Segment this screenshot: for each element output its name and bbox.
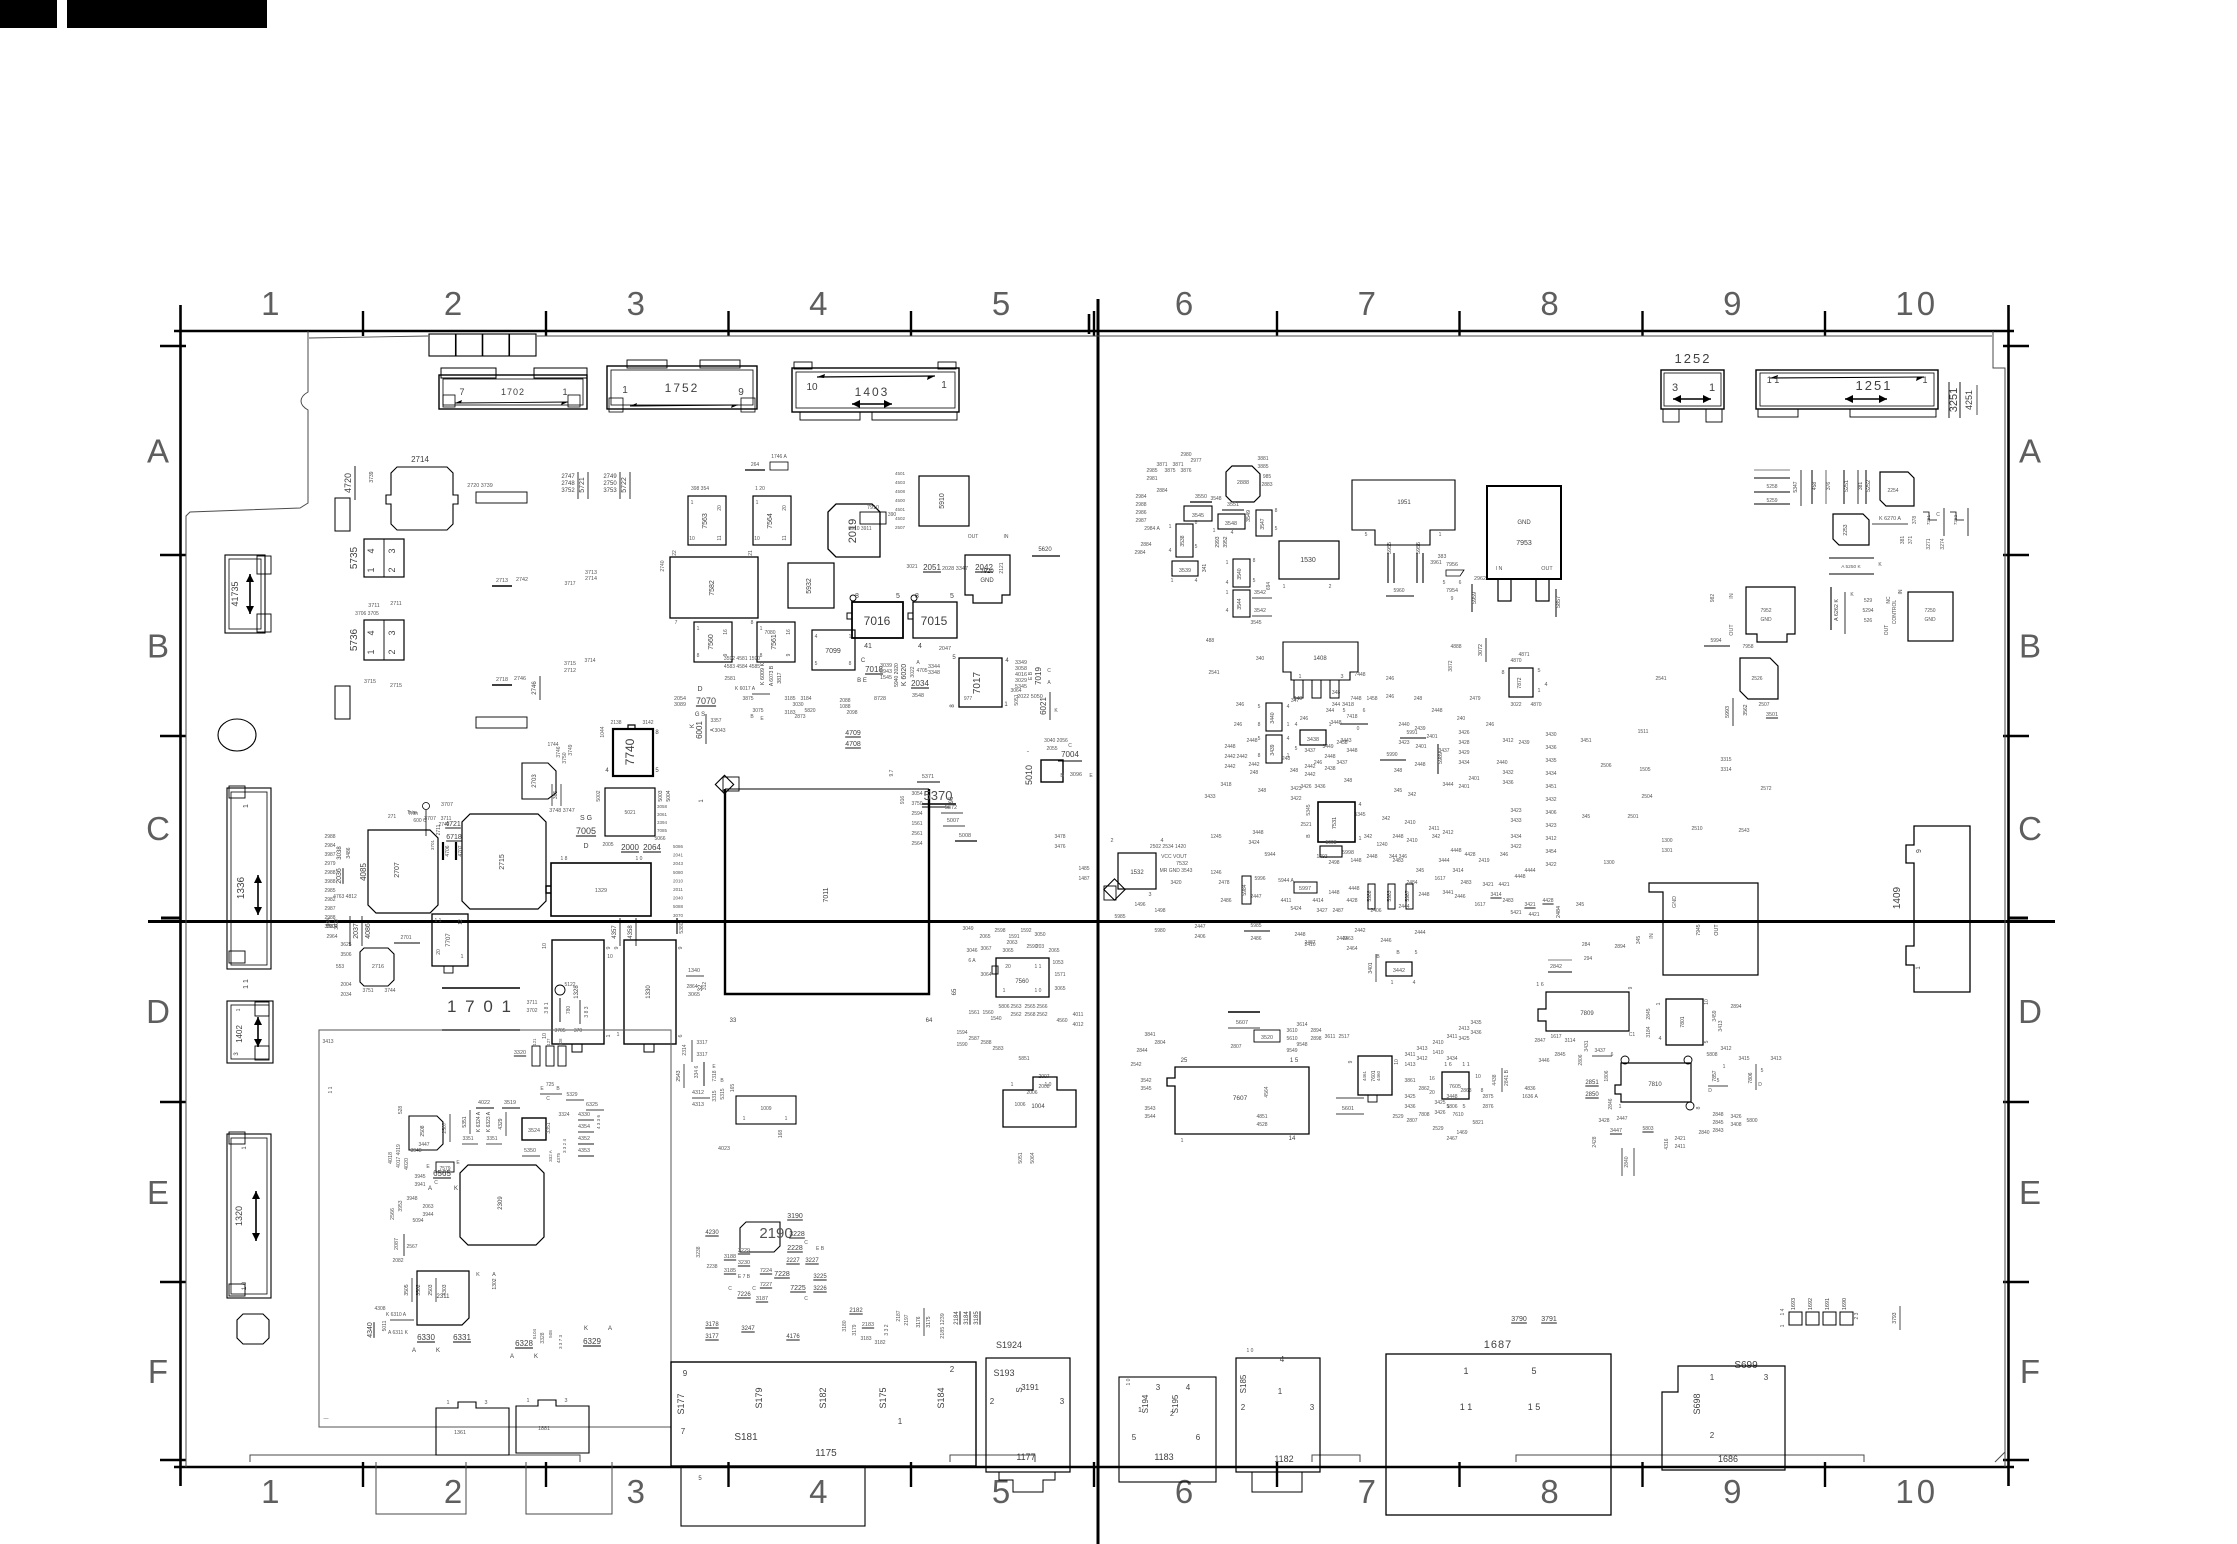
- svg-text:381: 381: [1900, 536, 1906, 545]
- svg-text:1487: 1487: [1078, 876, 1089, 882]
- svg-text:1 8: 1 8: [561, 856, 568, 862]
- svg-text:K 6009 K: K 6009 K: [760, 663, 766, 686]
- svg-text:A: A: [510, 1354, 514, 1360]
- svg-text:7532: 7532: [1176, 861, 1188, 867]
- svg-text:6: 6: [1196, 1433, 1201, 1442]
- IC 2703: [522, 763, 556, 799]
- svg-text:25: 25: [1181, 1058, 1188, 1064]
- svg-text:4: 4: [1226, 608, 1229, 614]
- connector 1251: [1756, 370, 1938, 409]
- svg-text:2894: 2894: [1614, 944, 1625, 950]
- svg-text:2483: 2483: [1392, 858, 1403, 864]
- svg-text:2000: 2000: [621, 843, 639, 852]
- svg-text:3 3 2 4: 3 3 2 4: [562, 1139, 567, 1153]
- svg-text:3548: 3548: [912, 693, 924, 699]
- svg-text:4438: 4438: [1492, 1074, 1498, 1085]
- svg-text:2572: 2572: [1760, 786, 1771, 792]
- IC 2254: [1880, 472, 1914, 506]
- svg-text:5086: 5086: [673, 844, 684, 849]
- svg-text:2529: 2529: [1392, 1114, 1403, 1120]
- svg-text:3411: 3411: [1405, 1052, 1416, 1058]
- svg-text:3: 3: [1764, 1373, 1769, 1382]
- svg-text:4428: 4428: [1464, 852, 1475, 858]
- svg-text:5004: 5004: [666, 790, 672, 801]
- svg-text:2448: 2448: [1366, 854, 1377, 860]
- svg-text:1448: 1448: [1328, 890, 1339, 896]
- svg-text:1617: 1617: [1550, 1034, 1561, 1040]
- svg-text:348: 348: [1394, 768, 1403, 774]
- svg-text:3542: 3542: [1140, 1078, 1151, 1084]
- svg-text:3872: 3872: [1448, 660, 1454, 671]
- svg-text:1691: 1691: [1825, 1298, 1831, 1310]
- svg-text:7610: 7610: [1452, 1112, 1463, 1118]
- svg-text:A: A: [2019, 433, 2041, 470]
- IC 7809: [1538, 992, 1629, 1031]
- part 3439: [1266, 735, 1282, 763]
- svg-text:3: 3: [485, 1400, 488, 1406]
- svg-text:3548: 3548: [1210, 496, 1221, 502]
- svg-text:5808: 5808: [1706, 1052, 1717, 1058]
- svg-text:9: 9: [1723, 285, 1744, 322]
- svg-text:1561: 1561: [911, 821, 922, 827]
- svg-text:3885: 3885: [1257, 464, 1268, 470]
- svg-text:7252: 7252: [1953, 514, 1958, 525]
- svg-text:1408: 1408: [1313, 656, 1327, 662]
- IC 5021 area: [605, 788, 655, 836]
- svg-text:10: 10: [689, 536, 695, 542]
- svg-text:2840: 2840: [1698, 1130, 1709, 1136]
- svg-text:2010: 2010: [673, 878, 684, 883]
- svg-text:1: 1: [1359, 836, 1362, 842]
- svg-text:K 6017 A: K 6017 A: [735, 686, 756, 692]
- svg-text:S G: S G: [580, 815, 592, 822]
- svg-text:9: 9: [614, 947, 620, 950]
- svg-text:2562: 2562: [1036, 1012, 1047, 1018]
- svg-text:2711: 2711: [436, 824, 442, 835]
- svg-text:G S: G S: [695, 712, 705, 718]
- svg-text:5: 5: [1717, 1078, 1720, 1084]
- svg-text:C: C: [1068, 743, 1072, 749]
- svg-text:1511: 1511: [1638, 729, 1649, 735]
- svg-text:GND: GND: [980, 578, 994, 584]
- svg-text:376: 376: [1826, 482, 1832, 491]
- svg-text:5851: 5851: [1018, 1056, 1029, 1062]
- svg-text:246: 246: [1386, 694, 1395, 700]
- svg-text:5: 5: [1258, 736, 1261, 742]
- svg-text:B: B: [147, 628, 169, 665]
- svg-text:1328: 1328: [574, 985, 580, 999]
- svg-text:6718: 6718: [446, 834, 462, 841]
- svg-text:2844: 2844: [1136, 1048, 1147, 1054]
- svg-text:3180: 3180: [842, 1320, 848, 1331]
- svg-text:2987: 2987: [324, 906, 335, 912]
- svg-text:GND: GND: [1924, 617, 1936, 623]
- svg-text:2804: 2804: [1154, 1040, 1165, 1046]
- section divider horizontal: [148, 920, 2055, 923]
- svg-text:3065: 3065: [1054, 986, 1065, 992]
- svg-text:3413: 3413: [1770, 1056, 1781, 1062]
- board outline left section: [186, 331, 308, 1467]
- svg-text:1: 1: [691, 500, 694, 506]
- svg-text:3043: 3043: [714, 728, 725, 734]
- svg-text:65: 65: [952, 988, 958, 995]
- svg-text:3114: 3114: [1565, 1038, 1576, 1044]
- svg-text:7011: 7011: [823, 887, 830, 902]
- svg-text:3064: 3064: [980, 972, 991, 978]
- connector 1336: [227, 788, 271, 969]
- svg-text:4: 4: [366, 548, 376, 553]
- svg-text:4414: 4414: [1312, 898, 1323, 904]
- svg-text:10: 10: [1704, 999, 1710, 1005]
- svg-text:2082: 2082: [392, 1258, 403, 1264]
- svg-text:6: 6: [1459, 580, 1462, 586]
- svg-text:C: C: [1047, 668, 1051, 674]
- svg-text:2034: 2034: [911, 679, 929, 688]
- svg-text:3545: 3545: [1140, 1086, 1151, 1092]
- svg-text:3 8 1: 3 8 1: [544, 1002, 550, 1013]
- svg-text:3075: 3075: [752, 708, 763, 714]
- svg-text:1: 1: [697, 626, 700, 632]
- svg-text:3408: 3408: [1730, 1122, 1741, 1128]
- svg-text:8: 8: [1540, 1473, 1561, 1510]
- svg-text:S181: S181: [734, 1432, 758, 1443]
- svg-text:3324: 3324: [558, 1112, 569, 1118]
- svg-text:246: 246: [1234, 722, 1243, 728]
- svg-text:5007: 5007: [947, 818, 959, 824]
- svg-text:165: 165: [730, 1084, 736, 1093]
- svg-text:3046: 3046: [966, 948, 977, 954]
- row ticks left: [160, 345, 186, 347]
- svg-text:203: 203: [1036, 944, 1045, 950]
- transistor pair 7251: [1923, 512, 1937, 520]
- IC 5910: [919, 476, 969, 526]
- svg-text:2438: 2438: [1324, 766, 1335, 772]
- svg-text:1532: 1532: [1130, 870, 1144, 876]
- svg-text:GND: GND: [1672, 896, 1678, 908]
- svg-text:3423: 3423: [1545, 823, 1556, 829]
- svg-text:3707: 3707: [441, 802, 453, 808]
- svg-text:3049: 3049: [962, 926, 973, 932]
- svg-text:1410: 1410: [1432, 1050, 1443, 1056]
- svg-text:2507: 2507: [1758, 702, 1769, 708]
- svg-text:9: 9: [606, 947, 612, 950]
- svg-text:2063: 2063: [422, 1204, 433, 1210]
- svg-text:1 6: 1 6: [1444, 1062, 1452, 1068]
- part 3440: [1266, 703, 1282, 731]
- svg-text:2401: 2401: [1458, 784, 1469, 790]
- svg-text:C: C: [804, 1240, 808, 1246]
- svg-text:21: 21: [748, 550, 754, 556]
- svg-text:2718: 2718: [496, 677, 508, 683]
- svg-text:3: 3: [1310, 1403, 1315, 1412]
- svg-text:S184: S184: [936, 1387, 946, 1408]
- svg-text:3230: 3230: [738, 1260, 750, 1266]
- svg-text:10: 10: [1475, 1074, 1481, 1080]
- IC 7607: [1167, 1067, 1309, 1134]
- svg-text:312: 312: [702, 982, 708, 991]
- svg-text:694: 694: [1266, 582, 1272, 591]
- row tick at divider left: [1088, 314, 1091, 334]
- svg-text:5066: 5066: [654, 836, 665, 842]
- svg-text:1 1: 1 1: [1767, 375, 1780, 385]
- svg-text:2962: 2962: [1474, 576, 1486, 582]
- svg-text:3050: 3050: [1034, 932, 1045, 938]
- svg-text:3538: 3538: [1180, 535, 1186, 546]
- svg-text:2883: 2883: [1261, 482, 1272, 488]
- svg-text:D: D: [583, 843, 588, 850]
- svg-text:1 1: 1 1: [328, 1086, 334, 1093]
- svg-text:3351: 3351: [546, 1122, 552, 1133]
- svg-text:3238: 3238: [696, 1246, 702, 1257]
- svg-text:2439: 2439: [1518, 740, 1529, 746]
- svg-text:2421: 2421: [1674, 1136, 1685, 1142]
- svg-text:5424: 5424: [1290, 906, 1301, 912]
- svg-text:1594: 1594: [956, 1030, 967, 1036]
- svg-text:3545: 3545: [1192, 513, 1204, 519]
- svg-text:5347: 5347: [1793, 481, 1799, 492]
- svg-text:121: 121: [532, 1038, 537, 1046]
- svg-text:7228: 7228: [774, 1271, 790, 1278]
- board outline bottom tabs: [250, 1455, 580, 1462]
- svg-text:345: 345: [1416, 868, 1425, 874]
- svg-text:2487: 2487: [1332, 908, 1343, 914]
- svg-text:3506: 3506: [340, 952, 351, 958]
- svg-text:2439: 2439: [1414, 726, 1425, 732]
- svg-text:2504: 2504: [1641, 794, 1652, 800]
- svg-text:22: 22: [672, 550, 678, 556]
- svg-text:5: 5: [1463, 1104, 1466, 1110]
- svg-text:1: 1: [366, 567, 376, 572]
- svg-text:2446: 2446: [1380, 938, 1391, 944]
- svg-text:2517: 2517: [1338, 1034, 1349, 1040]
- label 5989: [1437, 744, 1439, 774]
- svg-text:5944 A: 5944 A: [1278, 878, 1294, 884]
- svg-text:2401: 2401: [1426, 734, 1437, 740]
- svg-text:5: 5: [1253, 578, 1256, 584]
- svg-text:1 1: 1 1: [1460, 1402, 1473, 1412]
- svg-text:6331: 6331: [453, 1333, 471, 1342]
- svg-text:7707: 7707: [446, 933, 452, 947]
- svg-text:3: 3: [1156, 1383, 1161, 1392]
- svg-text:14: 14: [1289, 1136, 1296, 1142]
- svg-text:A: A: [608, 1326, 612, 1332]
- svg-text:1 4: 1 4: [1780, 1308, 1786, 1315]
- label 5250: [1829, 557, 1874, 559]
- svg-text:2566: 2566: [390, 1208, 396, 1220]
- svg-text:1: 1: [1011, 1082, 1014, 1088]
- svg-text:3040 2056: 3040 2056: [1044, 738, 1068, 744]
- svg-text:2851: 2851: [1585, 1080, 1599, 1086]
- svg-text:3425: 3425: [1404, 1094, 1415, 1100]
- svg-text:1: 1: [1138, 1407, 1142, 1414]
- svg-text:1744: 1744: [547, 742, 558, 748]
- svg-text:8: 8: [697, 653, 700, 659]
- svg-text:1540: 1540: [990, 1016, 1001, 1022]
- svg-text:7: 7: [1358, 1473, 1379, 1510]
- svg-text:7250: 7250: [1924, 608, 1935, 614]
- IC 1532: [1118, 853, 1156, 889]
- svg-text:1: 1: [1171, 578, 1174, 584]
- svg-text:4: 4: [366, 630, 376, 635]
- svg-text:2845: 2845: [1646, 1008, 1652, 1019]
- svg-text:128: 128: [558, 1038, 563, 1046]
- svg-text:4340: 4340: [367, 1322, 374, 1338]
- svg-text:3406: 3406: [1545, 810, 1556, 816]
- svg-text:F: F: [148, 1353, 168, 1390]
- svg-text:3945: 3945: [414, 1174, 425, 1180]
- svg-text:5996: 5996: [1254, 876, 1265, 882]
- svg-text:3448: 3448: [1330, 720, 1341, 726]
- svg-text:1752: 1752: [665, 381, 700, 395]
- svg-text:12: 12: [458, 919, 464, 925]
- svg-text:5051: 5051: [1018, 1152, 1024, 1163]
- svg-text:2413: 2413: [1458, 1026, 1469, 1032]
- svg-text:3428: 3428: [1598, 1118, 1609, 1124]
- svg-text:1300: 1300: [1661, 838, 1672, 844]
- svg-text:D: D: [1758, 1082, 1762, 1088]
- svg-text:1: 1: [261, 285, 282, 322]
- svg-text:7226: 7226: [737, 1292, 751, 1298]
- svg-text:1: 1: [756, 500, 759, 506]
- svg-text:2448: 2448: [1246, 738, 1257, 744]
- svg-text:3274: 3274: [1940, 538, 1946, 549]
- svg-text:5722: 5722: [621, 477, 628, 493]
- svg-text:6: 6: [1611, 1052, 1614, 1058]
- svg-text:1 1: 1 1: [243, 979, 250, 989]
- IC 2716: [360, 948, 394, 986]
- svg-text:9: 9: [1451, 596, 1454, 602]
- connector 1361: [436, 1402, 509, 1455]
- svg-text:4720: 4720: [343, 473, 353, 493]
- svg-text:528: 528: [398, 1106, 404, 1115]
- svg-text:3188: 3188: [724, 1254, 736, 1260]
- svg-text:1: 1: [1226, 560, 1229, 566]
- svg-text:2447: 2447: [1250, 894, 1261, 900]
- svg-text:4: 4: [1280, 1355, 1285, 1364]
- svg-text:2750: 2750: [603, 481, 617, 487]
- svg-text:3030: 3030: [792, 702, 803, 708]
- part 5998: [1320, 846, 1342, 857]
- svg-text:1571: 1571: [1054, 972, 1065, 978]
- svg-text:7: 7: [459, 387, 464, 397]
- svg-text:7531: 7531: [1332, 817, 1338, 829]
- svg-text:2588: 2588: [980, 1040, 991, 1046]
- svg-text:246: 246: [1300, 716, 1309, 722]
- svg-text:1: 1: [1656, 1003, 1662, 1006]
- svg-text:7954: 7954: [1446, 588, 1458, 594]
- svg-text:7560: 7560: [708, 634, 715, 650]
- svg-text:7080: 7080: [764, 630, 775, 636]
- svg-text:7910: 7910: [867, 505, 879, 511]
- svg-text:3434: 3434: [1510, 834, 1521, 840]
- svg-text:2563: 2563: [1010, 1004, 1021, 1010]
- svg-text:2701: 2701: [400, 935, 411, 941]
- svg-text:C: C: [728, 1286, 732, 1292]
- svg-text:7227: 7227: [760, 1282, 772, 1288]
- svg-text:3179: 3179: [852, 1324, 858, 1335]
- svg-text:2884: 2884: [1156, 488, 1167, 494]
- svg-text:3182: 3182: [874, 1340, 885, 1346]
- svg-text:2: 2: [950, 1365, 955, 1374]
- svg-text:2087: 2087: [394, 1238, 400, 1250]
- svg-text:K 6323 A: K 6323 A: [486, 1111, 492, 1132]
- svg-text:2720 3739: 2720 3739: [467, 483, 492, 489]
- svg-text:8: 8: [1696, 1107, 1702, 1110]
- svg-text:1300: 1300: [1603, 860, 1614, 866]
- svg-text:2502 2534 1420: 2502 2534 1420: [1150, 844, 1186, 850]
- svg-text:1 1: 1 1: [1462, 1062, 1470, 1068]
- svg-text:2587: 2587: [968, 1036, 979, 1042]
- svg-text:3437: 3437: [1304, 748, 1315, 754]
- svg-text:3436: 3436: [1545, 745, 1556, 751]
- svg-text:2448: 2448: [1294, 932, 1305, 938]
- svg-text:4528: 4528: [1256, 1122, 1267, 1128]
- svg-text:725: 725: [546, 1082, 555, 1088]
- vline parts cluster: [1811, 470, 1813, 504]
- svg-text:5345: 5345: [1354, 812, 1365, 818]
- svg-text:C: C: [434, 1180, 438, 1186]
- IC 7017: [959, 658, 1002, 707]
- svg-text:2843: 2843: [1712, 1128, 1723, 1134]
- svg-text:2227: 2227: [786, 1258, 800, 1264]
- svg-text:3: 3: [387, 548, 397, 553]
- svg-text:3225: 3225: [813, 1274, 827, 1280]
- svg-text:3317: 3317: [696, 1052, 707, 1058]
- svg-text:1 0: 1 0: [1126, 1378, 1132, 1385]
- svg-text:3449: 3449: [1322, 744, 1333, 750]
- svg-text:4503: 4503: [895, 480, 906, 485]
- svg-text:5: 5: [896, 593, 900, 600]
- svg-text:3067: 3067: [980, 946, 991, 952]
- svg-text:4329: 4329: [498, 1118, 504, 1129]
- svg-text:2447: 2447: [1194, 924, 1205, 930]
- svg-text:2711: 2711: [390, 601, 402, 607]
- svg-text:1: 1: [1439, 532, 1442, 538]
- svg-text:7: 7: [675, 620, 678, 626]
- svg-text:3187: 3187: [756, 1296, 768, 1302]
- svg-text:1004: 1004: [1031, 1104, 1045, 1110]
- svg-text:S175: S175: [878, 1387, 888, 1408]
- svg-text:2707: 2707: [394, 862, 401, 878]
- svg-text:3022: 3022: [910, 666, 916, 677]
- svg-text:5251: 5251: [1844, 480, 1850, 492]
- svg-text:7945: 7945: [1696, 924, 1702, 935]
- svg-text:4500: 4500: [895, 498, 906, 503]
- IC 1408: [1283, 642, 1358, 680]
- svg-text:2041: 2041: [673, 853, 684, 858]
- svg-text:1044: 1044: [600, 726, 606, 737]
- svg-text:2440: 2440: [1398, 722, 1409, 728]
- svg-text:2448: 2448: [1418, 892, 1429, 898]
- svg-text:S179: S179: [754, 1387, 764, 1408]
- svg-text:C: C: [804, 1296, 808, 1302]
- svg-text:8: 8: [1481, 1088, 1484, 1094]
- svg-text:4: 4: [1659, 1036, 1662, 1042]
- svg-text:1053: 1053: [1052, 960, 1063, 966]
- svg-text:2187: 2187: [896, 1310, 902, 1321]
- svg-text:1687: 1687: [1484, 1339, 1512, 1351]
- connector 1183: [1119, 1377, 1216, 1482]
- svg-text:2411: 2411: [1429, 826, 1440, 832]
- svg-text:2567: 2567: [406, 1244, 417, 1250]
- connector 1752: [607, 366, 757, 409]
- svg-text:2746: 2746: [532, 681, 538, 695]
- svg-text:2842: 2842: [1550, 964, 1562, 970]
- svg-text:16: 16: [723, 629, 729, 635]
- IC 7601: [1358, 1056, 1392, 1095]
- svg-text:6565: 6565: [433, 1169, 451, 1178]
- svg-text:9.7: 9.7: [889, 769, 895, 776]
